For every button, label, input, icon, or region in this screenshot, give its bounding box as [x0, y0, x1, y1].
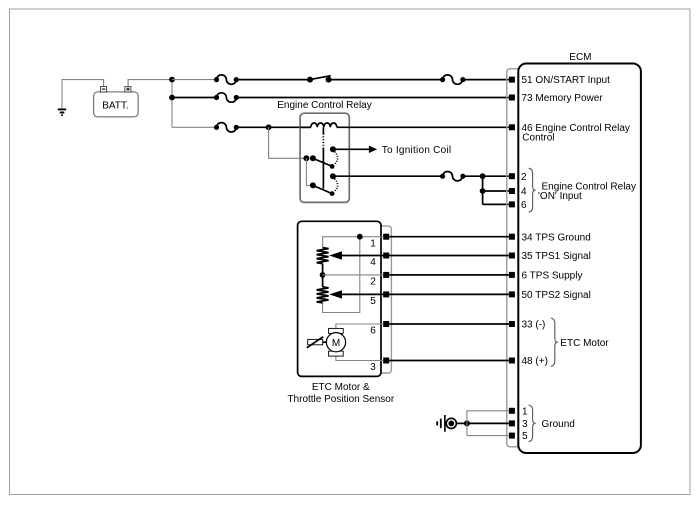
wire fuse to ignition switch — [236, 79, 310, 81]
relay contact to ECM 'ON' input — [330, 173, 336, 179]
svg-text:51 ON/START Input: 51 ON/START Input — [522, 75, 611, 86]
svg-text:73 Memory Power: 73 Memory Power — [522, 93, 604, 104]
node battery positive row1 — [169, 77, 175, 83]
svg-text:ETC Motor &: ETC Motor & — [312, 382, 370, 393]
fusible link (Memory Power row) — [214, 93, 239, 102]
sensor pin 3 — [370, 358, 389, 374]
node ON input branch — [480, 173, 486, 179]
relay coil — [300, 123, 337, 127]
svg-text:50 TPS2 Signal: 50 TPS2 Signal — [522, 290, 591, 301]
svg-text:6 TPS Supply: 6 TPS Supply — [522, 271, 583, 282]
fusible link (relay ON output row) — [440, 171, 466, 180]
wire ECM pin 34 to sensor pin 1 — [389, 236, 509, 238]
ECM pin 6 TPS supply — [509, 271, 583, 282]
svg-text:Ground: Ground — [542, 419, 575, 430]
svg-text:6: 6 — [370, 326, 376, 337]
ECM pin 46 — [509, 123, 630, 144]
ECM pin 5 — [509, 431, 528, 442]
sensor pin 2 — [370, 272, 389, 288]
sensor pin 6 — [370, 321, 389, 337]
svg-text:1: 1 — [370, 238, 376, 249]
ETC motor M — [326, 324, 383, 361]
ECM box — [518, 64, 641, 454]
ECM pin 4 — [509, 187, 527, 198]
svg-text:BATT.: BATT. — [102, 100, 128, 111]
ECM pin 2 — [509, 172, 527, 183]
wire relay contact feed — [269, 127, 307, 158]
wire ECM pin 33 to motor — [389, 323, 509, 325]
svg-text:6: 6 — [521, 200, 527, 211]
wire ECM pin 35 to TPS1 wiper — [329, 251, 509, 259]
wire ECM pin 48 to motor — [389, 360, 509, 362]
wire switch to fuse 2 — [329, 79, 443, 81]
svg-text:'ON' Input: 'ON' Input — [538, 191, 582, 202]
sensor pin 1 — [370, 234, 389, 250]
relay contact to ignition coil — [330, 146, 336, 152]
svg-text:4: 4 — [370, 257, 376, 268]
ECM pin 51 — [509, 75, 610, 86]
label Engine Control Relay ON Input — [538, 181, 636, 202]
wire branch vertical 2-4-6 — [482, 176, 484, 204]
relay box — [300, 113, 349, 202]
wire and arrow To Ignition Coil — [333, 146, 377, 153]
svg-text:4: 4 — [521, 187, 527, 198]
fusible link (ON/START row, right) — [440, 75, 466, 84]
wire fuse to ECM pin 73 — [236, 97, 509, 99]
wire relay contact to fuse — [333, 175, 443, 177]
wire row1 node to fuse — [172, 79, 217, 81]
sensor connector shell — [376, 226, 391, 373]
svg-text:To Ignition Coil: To Ignition Coil — [382, 145, 452, 156]
brace ETC Motor group — [551, 318, 558, 366]
brace Ground group — [529, 405, 536, 442]
ETC motor and TPS box — [298, 221, 381, 376]
relay common contact (upper pole) — [303, 155, 316, 161]
wire battery negative to chassis ground — [62, 80, 104, 109]
ECM pin 73 — [509, 93, 603, 104]
wire ECM pin 6 to sensor pin 2 — [389, 274, 509, 276]
wire ground to node — [456, 422, 467, 424]
wire fuse to ECM pin 2 — [463, 175, 509, 177]
sensor pin 4 — [370, 253, 389, 269]
svg-text:Control: Control — [522, 133, 554, 144]
wire ground branch to pins 1 and 5 — [467, 411, 509, 436]
wire row2 node to fuse — [172, 97, 217, 99]
battery BATT. — [94, 87, 139, 117]
sensor pin 5 — [370, 291, 389, 307]
wire fuse to relay coil — [236, 126, 310, 128]
wire fuse 2 to ECM pin 51 — [463, 79, 509, 81]
svg-text:34 TPS Ground: 34 TPS Ground — [522, 232, 591, 243]
ground (battery negative) — [58, 109, 66, 115]
wire ECM pin 50 to TPS2 wiper — [329, 290, 509, 298]
svg-text:2: 2 — [370, 277, 376, 288]
svg-text:1: 1 — [522, 406, 528, 417]
wire distribution vertical — [171, 80, 173, 128]
relay blade (lower pole) — [313, 179, 338, 196]
svg-text:3: 3 — [522, 419, 528, 430]
svg-text:ETC Motor: ETC Motor — [560, 338, 609, 349]
resistor TPS1 — [317, 248, 329, 264]
relay common contact (lower pole) — [310, 182, 316, 188]
ECM connector shell — [507, 69, 557, 447]
svg-text:M: M — [332, 338, 340, 349]
relay armature link — [322, 127, 324, 188]
svg-text:48 (+): 48 (+) — [522, 356, 548, 367]
ECM pin 33 — [509, 320, 546, 331]
svg-text:Throttle Position Sensor: Throttle Position Sensor — [287, 394, 394, 405]
wire branch to ECM pin 4 — [483, 190, 509, 192]
ECM pin 6 — [509, 200, 527, 211]
svg-text:3: 3 — [370, 362, 376, 373]
resistor TPS2 — [317, 287, 329, 303]
svg-text:2: 2 — [521, 172, 527, 183]
svg-text:33 (-): 33 (-) — [522, 320, 546, 331]
wire relay coil to ECM pin 46 — [337, 126, 509, 128]
label ETC Motor & Throttle Position Sensor — [287, 382, 394, 405]
wire ground node to ECM pin 3 — [467, 422, 509, 424]
svg-text:ECM: ECM — [569, 52, 591, 63]
node relay feed — [266, 124, 272, 130]
node pin 4 branch — [480, 188, 486, 194]
TPS top rail (pin 1 net) — [323, 234, 384, 313]
svg-text:5: 5 — [370, 296, 376, 307]
wire relay common to lower pole — [306, 158, 313, 185]
svg-text:Engine Control Relay: Engine Control Relay — [277, 100, 372, 111]
ECM pin 48 — [509, 356, 548, 367]
brace ON input group — [529, 168, 536, 212]
relay blade (upper pole) — [313, 152, 338, 169]
ECM pin 50 — [509, 290, 591, 301]
fusible link (relay coil row) — [214, 123, 239, 132]
node ground branch — [464, 420, 470, 426]
node row2 branch — [169, 95, 175, 101]
wire battery positive to distribution node — [128, 80, 172, 87]
svg-text:5: 5 — [522, 431, 528, 442]
svg-text:35 TPS1 Signal: 35 TPS1 Signal — [522, 251, 591, 262]
chassis ground (ECM grounds) — [437, 415, 456, 432]
ECM pin 34 — [509, 232, 591, 243]
wire branch to ECM pin 6 — [483, 203, 509, 205]
throttle plate icon — [307, 337, 327, 348]
wire row3 node to fuse — [172, 126, 217, 128]
ECM pin 1 — [509, 406, 528, 417]
ECM pin 3 — [509, 419, 528, 430]
ignition switch — [307, 76, 332, 83]
TPS mid junction (supply net) — [320, 264, 384, 287]
ECM pin 35 — [509, 251, 591, 262]
fusible link (ON/START row, left) — [214, 75, 239, 84]
